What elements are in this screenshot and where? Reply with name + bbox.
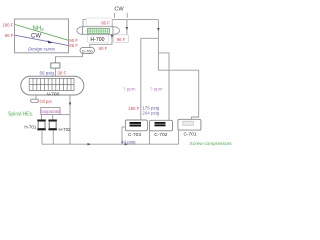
CW stub 1: [114, 13, 116, 18]
svg-text:H-701: H-701: [24, 124, 37, 129]
svg-text:180 F: 180 F: [2, 23, 14, 28]
96 F callout box: [114, 35, 129, 43]
compressor C-701: [178, 119, 201, 130]
top CW header pipe: [83, 20, 158, 27]
svg-text:V-700: V-700: [47, 92, 60, 98]
pump/trap oval G-700: [80, 47, 95, 53]
svg-text:H-702: H-702: [59, 127, 72, 132]
wire: down to 96F area: [126, 20, 128, 35]
svg-text:Spiral HEs.: Spiral HEs.: [8, 111, 33, 117]
wire: CW into shell left: [111, 20, 113, 27]
svg-text:56 psig: 56 psig: [39, 70, 54, 75]
svg-text:C-701: C-701: [183, 131, 196, 137]
wire: evap to H-701: [41, 115, 43, 120]
letdown valve: [51, 63, 60, 68]
wire: G-700 to letdown valve: [56, 53, 83, 63]
spiral HE H-702: [48, 120, 57, 131]
svg-text:44 psig: 44 psig: [121, 139, 136, 144]
svg-text:204 psig: 204 psig: [142, 111, 160, 116]
outlet arrow: [111, 35, 114, 38]
CW line flow arrow: [48, 40, 53, 43]
svg-text:Screw compressors: Screw compressors: [190, 141, 233, 147]
wire: to evaporator box: [60, 114, 70, 116]
svg-text:86 F: 86 F: [101, 20, 110, 25]
H-700 callout box: [88, 35, 109, 43]
compressor C-702: [150, 120, 173, 131]
svg-text:NH3: NH3: [33, 26, 45, 32]
header flow arrow 2: [125, 143, 128, 146]
CW branch to C-703: [136, 38, 158, 120]
oil pot stub: [35, 95, 37, 99]
H-700 right head: [113, 27, 120, 35]
svg-text:Evaporator: Evaporator: [40, 109, 61, 114]
svg-text:96 F: 96 F: [5, 33, 14, 38]
svg-text:G-700: G-700: [82, 50, 93, 54]
svg-text:CW: CW: [31, 34, 41, 40]
main right wire down: [157, 20, 159, 71]
oil pot: [31, 99, 39, 102]
H-700 left head: [77, 27, 83, 35]
evaporator callout box: [41, 108, 60, 115]
CW branch to C-701: [158, 70, 198, 119]
NH3 design curve line: [15, 25, 68, 41]
vessel V-700: [21, 76, 84, 95]
CW branch to C-702: [158, 53, 169, 121]
svg-text:C-702: C-702: [154, 132, 167, 138]
wire: V-700 down right side: [69, 95, 71, 144]
H-700 tube bundle: [87, 29, 109, 34]
svg-text:H-700: H-700: [90, 37, 104, 43]
wire: valve to V-700: [55, 68, 57, 77]
wire: H-701 to suction header: [41, 130, 43, 144]
wire: evap to H-702: [52, 115, 54, 120]
svg-text:Design curve: Design curve: [28, 47, 55, 52]
CW design curve line: [15, 35, 68, 45]
spiral HE H-701: [37, 120, 46, 131]
svg-text:? ppm: ? ppm: [123, 86, 136, 91]
C-703 suction riser: [121, 127, 123, 144]
heat exchanger H-700 shell: [83, 27, 114, 35]
design curve plot box: [15, 19, 69, 53]
svg-text:C-703: C-703: [128, 132, 141, 138]
C-702 suction riser: [149, 131, 151, 144]
svg-text:90 F: 90 F: [99, 46, 108, 51]
arrow on right wire: [157, 28, 160, 31]
86 F callout box: [86, 18, 112, 26]
svg-text:Oil pot: Oil pot: [40, 99, 53, 104]
header flow arrow 1: [88, 143, 91, 146]
arrow on 126.9 wire: [126, 27, 129, 30]
CW stub 2: [126, 13, 128, 18]
svg-text:? ppm: ? ppm: [150, 86, 163, 91]
svg-text:180 F: 180 F: [128, 106, 140, 111]
svg-text:86 F: 86 F: [69, 43, 78, 48]
svg-text:CW: CW: [114, 7, 124, 13]
compressor C-703: [125, 120, 147, 131]
C-701 suction riser: [178, 130, 180, 144]
svg-text:96 F: 96 F: [117, 37, 126, 42]
V-700 tube grid: [29, 78, 74, 90]
suction header: [42, 143, 179, 145]
svg-text:38 F: 38 F: [57, 70, 66, 75]
NH3 outlet wire from exchanger bottom: [90, 34, 112, 47]
wire: H-702 to suction header: [52, 130, 54, 144]
